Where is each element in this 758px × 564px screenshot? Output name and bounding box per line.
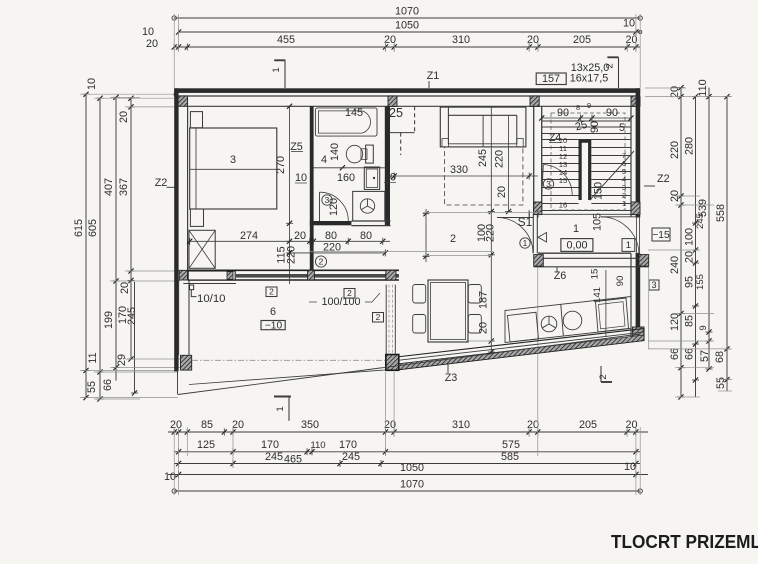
svg-text:558: 558 (715, 204, 727, 222)
bottom dimension chain row A (168, 431, 648, 433)
bathtub (315, 108, 377, 136)
svg-text:170: 170 (339, 439, 357, 451)
svg-text:90: 90 (606, 107, 618, 119)
svg-text:85: 85 (684, 315, 696, 327)
toilet (366, 145, 374, 163)
stair header 157 box 13x25,0 16x17,5 (536, 73, 566, 85)
svg-text:80: 80 (360, 230, 372, 242)
svg-text:1070: 1070 (400, 479, 424, 491)
svg-text:1: 1 (271, 67, 282, 72)
svg-text:575: 575 (502, 439, 520, 451)
svg-text:10: 10 (86, 78, 98, 90)
shower (353, 191, 385, 221)
left wall inner line (187, 106, 189, 272)
svg-text:3: 3 (651, 280, 656, 290)
svg-text:TLOCRT PRIZEMLJA: TLOCRT PRIZEMLJA (611, 531, 758, 552)
entry door S1 arc (497, 218, 533, 254)
dim 270/115/220 vertical chain (289, 106, 291, 284)
terrace north wall piers (179, 270, 187, 280)
svg-text:10: 10 (624, 461, 636, 473)
svg-text:20: 20 (294, 230, 306, 242)
svg-text:141: 141 (592, 287, 603, 303)
svg-text:85: 85 (201, 419, 213, 431)
svg-text:220: 220 (669, 141, 681, 159)
svg-text:20: 20 (170, 419, 182, 431)
svg-text:330: 330 (450, 164, 468, 176)
left exterior wall dark band (174, 88, 178, 371)
left extension lines (80, 93, 174, 95)
svg-text:1050: 1050 (400, 462, 424, 474)
right exterior wall (636, 88, 641, 217)
svg-text:3: 3 (546, 179, 551, 189)
svg-text:240: 240 (669, 256, 681, 274)
level box -10 (261, 321, 285, 330)
svg-text:Z2: Z2 (155, 177, 168, 189)
svg-text:20: 20 (118, 111, 130, 123)
stair dims 90 25 90 90 (542, 117, 631, 119)
shaft niche dashed lines with 25 label (414, 106, 416, 132)
svg-text:220: 220 (494, 150, 506, 168)
svg-text:90: 90 (615, 276, 626, 287)
svg-text:2: 2 (269, 287, 274, 297)
top wall piers hatched (177, 96, 188, 106)
svg-text:1: 1 (573, 223, 579, 235)
svg-text:245: 245 (342, 451, 360, 463)
svg-text:0,00: 0,00 (566, 240, 587, 252)
svg-text:4: 4 (321, 154, 327, 166)
svg-text:90: 90 (557, 107, 569, 119)
svg-text:−15: −15 (652, 230, 670, 241)
svg-text:25: 25 (389, 106, 403, 120)
bottom slanted exterior wall (392, 329, 644, 371)
svg-text:1: 1 (626, 240, 631, 251)
svg-text:280: 280 (684, 137, 696, 155)
stair central U wall (579, 140, 592, 201)
svg-text:100: 100 (684, 228, 696, 246)
svg-text:15: 15 (559, 176, 568, 185)
svg-text:140: 140 (329, 143, 341, 161)
dim line 220 bathroom width (290, 252, 386, 254)
svg-text:−10: −10 (265, 320, 283, 331)
svg-text:Z2: Z2 (657, 173, 670, 185)
svg-text:20: 20 (684, 251, 696, 263)
stair door arc (543, 165, 572, 196)
svg-text:29: 29 (116, 354, 128, 366)
svg-text:110: 110 (310, 440, 325, 451)
svg-text:465: 465 (284, 454, 302, 466)
stair treads upper landing full width (542, 120, 631, 122)
right extension lines (645, 96, 732, 98)
section marker 1 bottom (274, 396, 291, 398)
section marker 1 top (274, 59, 285, 61)
svg-text:1: 1 (622, 199, 626, 208)
svg-text:1050: 1050 (395, 20, 419, 32)
stair treads left flight (542, 147, 579, 149)
svg-text:220: 220 (485, 224, 497, 242)
svg-text:16: 16 (559, 201, 568, 210)
left wall piers hatched (181, 355, 192, 370)
sink (563, 311, 582, 330)
svg-text:66: 66 (669, 348, 681, 360)
svg-text:615: 615 (73, 219, 85, 237)
svg-text:367: 367 (118, 178, 130, 196)
svg-text:270: 270 (275, 156, 287, 174)
terrace bench planter (188, 271, 235, 280)
svg-text:15: 15 (590, 269, 601, 280)
stair south edge line (542, 213, 631, 215)
svg-text:90: 90 (589, 121, 601, 133)
svg-text:2: 2 (319, 256, 324, 266)
right dimension chains (680, 88, 682, 397)
top dimension chain 20/455/20/310/20/205/20 (174, 46, 640, 48)
top dimension chain 1070 (174, 17, 640, 19)
svg-text:205: 205 (579, 419, 597, 431)
svg-text:350: 350 (301, 419, 319, 431)
door swing triangle (538, 233, 547, 243)
svg-text:9: 9 (698, 325, 709, 330)
svg-text:10: 10 (623, 18, 635, 30)
svg-text:120: 120 (669, 313, 681, 331)
svg-text:187: 187 (478, 291, 490, 309)
dim 330 (389, 175, 538, 177)
room3-bath separator wall (310, 106, 314, 270)
dining table (428, 280, 468, 342)
bathroom east wall (385, 106, 390, 225)
svg-text:68: 68 (714, 351, 726, 363)
svg-text:125: 125 (197, 439, 215, 451)
door mark circle 3 bath (322, 195, 332, 205)
bottom extension lines (173, 427, 175, 495)
dim line x426 (425, 209, 427, 262)
svg-text:310: 310 (452, 419, 470, 431)
bathroom south wall (310, 221, 352, 225)
svg-text:245: 245 (477, 149, 489, 167)
svg-text:585: 585 (501, 451, 519, 463)
S1 door frame lines (532, 214, 534, 253)
svg-text:274: 274 (240, 230, 258, 242)
svg-text:6: 6 (270, 306, 276, 318)
entry south wall and porch (538, 252, 631, 254)
svg-text:11: 11 (87, 352, 99, 363)
svg-text:605: 605 (87, 219, 99, 237)
room 3 dim line 274/20/80/80 (188, 240, 390, 242)
svg-text:245: 245 (265, 451, 283, 463)
svg-text:105: 105 (592, 213, 604, 231)
svg-text:Z3: Z3 (445, 372, 458, 384)
stair west wall (533, 106, 535, 214)
top wall inner lines (174, 95, 640, 97)
terrace post 10/10 (190, 285, 194, 290)
svg-text:1070: 1070 (395, 6, 419, 18)
window mark circle 2 room3 (315, 256, 326, 267)
svg-text:5: 5 (619, 122, 625, 134)
terrace north wall band with windows (188, 269, 399, 271)
extension line horizontal (310, 251, 493, 253)
svg-text:155: 155 (695, 274, 706, 290)
section marker 2 bottom (600, 366, 602, 382)
kitchen appliance right (596, 298, 629, 332)
bathroom door arc (320, 192, 349, 221)
svg-text:10: 10 (142, 26, 154, 38)
svg-text:170: 170 (261, 439, 279, 451)
svg-text:199: 199 (103, 311, 115, 329)
svg-text:100/100: 100/100 (321, 296, 360, 308)
svg-text:95: 95 (684, 276, 696, 288)
svg-text:150: 150 (593, 182, 605, 200)
section marker 2 top (607, 56, 618, 58)
svg-text:205: 205 (573, 34, 591, 46)
svg-text:55: 55 (715, 377, 727, 389)
svg-text:20: 20 (496, 186, 508, 198)
window marks 2 terrace (266, 287, 277, 297)
svg-text:10/10: 10/10 (197, 293, 226, 305)
plot boundary slanted lines (177, 371, 179, 395)
svg-text:455: 455 (277, 34, 295, 46)
svg-text:157: 157 (542, 73, 560, 85)
bottom dimension chain row C (174, 463, 640, 465)
window mark 1 box (622, 239, 635, 252)
svg-text:220: 220 (286, 246, 298, 264)
svg-text:2: 2 (450, 233, 456, 245)
svg-text:160: 160 (337, 172, 355, 184)
svg-text:20: 20 (478, 322, 490, 334)
svg-text:245: 245 (126, 307, 138, 325)
stair treads right flight (591, 147, 631, 149)
wardrobe X room 3 (189, 230, 215, 268)
vertical dim lines 245/100/187 and 220/220/20 (490, 106, 492, 352)
svg-text:8: 8 (576, 103, 580, 112)
svg-text:Z6: Z6 (554, 270, 567, 282)
level box -15 (652, 228, 670, 241)
top extension lines (173, 14, 175, 52)
svg-text:145: 145 (345, 107, 363, 119)
bottom wall corner pier (386, 355, 399, 371)
kitchen fridge block (508, 312, 539, 342)
svg-text:20: 20 (527, 34, 539, 46)
svg-text:66: 66 (684, 348, 696, 360)
bed room 3 (190, 128, 277, 209)
left dimension chains (85, 94, 87, 397)
svg-text:20: 20 (119, 282, 131, 294)
bottom dimension chain row D 1050 (168, 474, 648, 476)
window mark 3 box (649, 280, 659, 290)
svg-text:10: 10 (295, 172, 307, 184)
nightstand bottom (190, 209, 203, 226)
terrace roofline dash-dot (192, 359, 386, 361)
svg-text:1: 1 (275, 406, 286, 411)
svg-text:110: 110 (697, 79, 709, 96)
svg-text:2: 2 (376, 312, 381, 322)
svg-text:245: 245 (695, 213, 706, 229)
bottom dimension chain row B (174, 451, 640, 453)
stair direction diagonal (590, 151, 634, 200)
cooktop (541, 316, 557, 332)
door mark circle 1 (520, 238, 530, 248)
svg-text:407: 407 (103, 178, 115, 196)
svg-text:20: 20 (146, 38, 158, 50)
entry exterior door arc (601, 217, 639, 255)
svg-text:3: 3 (230, 154, 236, 166)
washbasin (364, 167, 379, 190)
svg-text:Z1: Z1 (427, 70, 440, 82)
dining chairs (413, 285, 426, 304)
bottom dimension chain row E 1070 (174, 490, 640, 492)
svg-text:57: 57 (699, 350, 711, 362)
svg-text:80: 80 (325, 230, 337, 242)
kitchen counter (505, 297, 631, 343)
svg-text:66: 66 (102, 379, 114, 391)
svg-text:310: 310 (452, 34, 470, 46)
door mark circle 3 (543, 179, 553, 189)
S1 wall stubs (528, 211, 530, 218)
svg-text:120: 120 (328, 198, 340, 216)
top exterior wall dark band (174, 88, 640, 93)
nightstand top (190, 112, 202, 128)
svg-text:1: 1 (523, 238, 528, 248)
svg-text:55: 55 (86, 381, 98, 393)
stair dashed outline (551, 113, 625, 210)
svg-text:2: 2 (598, 374, 609, 379)
level box 0,00 (561, 239, 593, 252)
kitchen dims (605, 270, 607, 337)
sofa (440, 107, 526, 147)
svg-text:9: 9 (587, 101, 591, 110)
svg-text:16x17,5: 16x17,5 (570, 73, 608, 85)
svg-text:10: 10 (384, 172, 396, 184)
top dimension chain 1050 (179, 31, 641, 33)
rug dashed (444, 147, 523, 205)
right wall piers hatched (631, 202, 640, 215)
svg-text:20: 20 (232, 419, 244, 431)
terrace east wall dashed (385, 285, 387, 355)
bathroom dim 160 (313, 167, 384, 169)
